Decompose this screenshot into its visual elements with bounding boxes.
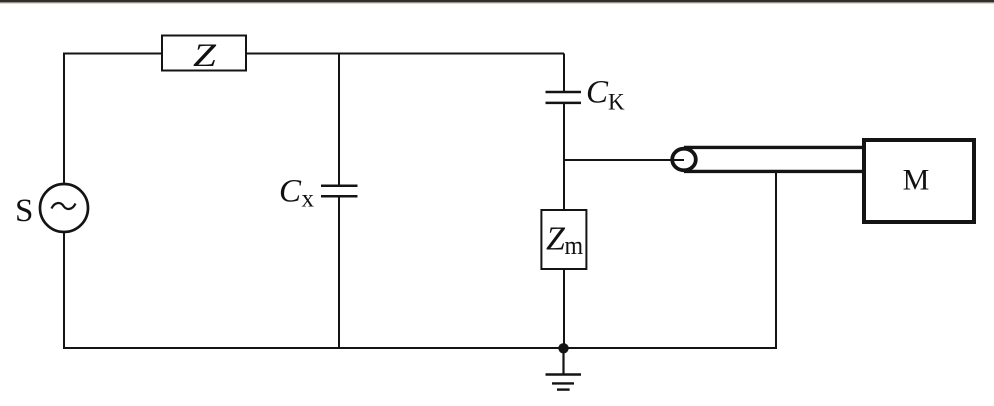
svg-text:Z: Z: [193, 38, 217, 74]
svg-text:m: m: [565, 232, 584, 260]
svg-text:C: C: [586, 75, 609, 111]
svg-text:Z: Z: [546, 221, 566, 258]
svg-text:M: M: [903, 164, 930, 197]
svg-text:C: C: [279, 174, 302, 210]
svg-text:x: x: [302, 186, 315, 213]
svg-text:S: S: [15, 193, 33, 229]
svg-text:K: K: [608, 90, 625, 115]
